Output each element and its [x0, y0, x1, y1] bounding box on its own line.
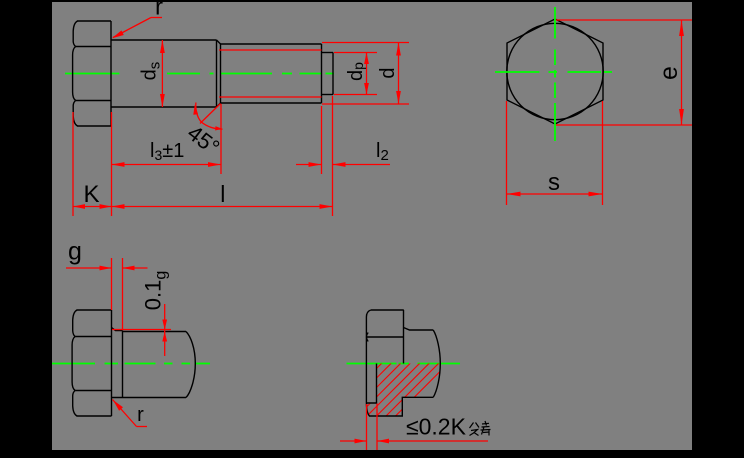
- inscribed chamfer circle: [507, 23, 603, 119]
- svg-text:e: e: [655, 66, 683, 80]
- svg-text:≤0.2K: ≤0.2K: [406, 414, 467, 440]
- svg-text:s: s: [548, 169, 560, 196]
- dimension s: [507, 101, 603, 205]
- dimension l2: [296, 96, 390, 216]
- svg-text:K: K: [83, 181, 99, 208]
- break line (bottom left): [186, 332, 195, 398]
- half section of head (outline): [366, 310, 440, 416]
- hex head side view (top view): [73, 21, 111, 126]
- hex head side view (bottom left): [72, 310, 111, 416]
- svg-text:r: r: [137, 404, 144, 426]
- 45 degree chamfer callout: [183, 103, 225, 161]
- bearing surface line (0.1g): [112, 329, 171, 331]
- centerline bottom left: [52, 363, 210, 365]
- hexagon (end view of head): [507, 19, 603, 124]
- centerline bottom middle: [347, 363, 461, 365]
- dimension g: [66, 238, 148, 331]
- dog point (dp): [322, 53, 334, 95]
- dimension K: [73, 112, 112, 216]
- leader r (fillet radius): [112, 0, 163, 38]
- shank (ds section): [111, 40, 221, 107]
- svg-text:d: d: [377, 67, 399, 78]
- leader r (bottom left): [113, 400, 148, 427]
- text 公差 (tolerance subscript): [470, 421, 491, 436]
- thread root lines (thin): [219, 50, 322, 97]
- svg-text:r: r: [155, 0, 163, 21]
- center cross vertical: [554, 7, 556, 141]
- centerline top view: [65, 73, 334, 75]
- dimension 0.2K (bearing face depression): [340, 404, 488, 451]
- svg-text:l: l: [220, 181, 225, 207]
- washer face and shank (bottom left): [112, 328, 187, 398]
- dimension 0.1g: [141, 271, 170, 356]
- dimension e: [556, 20, 692, 125]
- center cross horizontal: [495, 71, 612, 73]
- threaded section (d): [221, 44, 322, 103]
- dimension ds: [139, 40, 165, 107]
- dimension l3±1: [112, 104, 222, 174]
- svg-text:g: g: [68, 238, 82, 266]
- section hatching: [325, 358, 454, 420]
- dimension l: [112, 181, 333, 209]
- dimension dp: [334, 53, 377, 95]
- dimension d: [322, 43, 409, 105]
